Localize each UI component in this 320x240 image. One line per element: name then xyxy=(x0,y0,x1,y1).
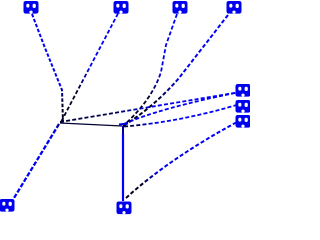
wire: edge from node D (top-right) curving down-left to junction J2 xyxy=(123,15,228,126)
wire: vertical edge from junction J2 down to node I (solid) xyxy=(122,126,124,136)
node H xyxy=(0,199,15,212)
graph drawing with blue dashed edges and square node markers xyxy=(0,0,250,217)
wire: edge from node I (bottom) curving up-right to node G (right, lower) xyxy=(126,121,239,198)
node B xyxy=(114,1,129,14)
node E xyxy=(236,84,251,97)
wire: bright corner segment at junction J2 xyxy=(119,124,128,125)
wire: edge from node A (top-left) curving down to junction J1 xyxy=(32,14,63,122)
wire: edge from junction J1 to node E (right, upper) xyxy=(60,92,240,122)
node C xyxy=(173,1,188,14)
node G xyxy=(236,115,251,128)
node D xyxy=(227,1,242,14)
wire: edge from node B (top) straight down-left to junction J1 xyxy=(61,14,118,123)
wire: edge from junction J2 to node F (right, middle) xyxy=(124,104,240,127)
node F xyxy=(236,100,251,113)
wire: edge from node C (top) curving down-left to junction J2 xyxy=(123,14,177,126)
wire: edge from junction J1 down-left to node H (bottom-left corner) xyxy=(14,124,59,198)
wire: connector between junction J1 and junction J2 xyxy=(60,123,122,126)
wire: second edge from junction J2 curving to node E (right, upper) xyxy=(124,92,240,124)
node I xyxy=(117,202,132,215)
node A xyxy=(24,1,39,14)
